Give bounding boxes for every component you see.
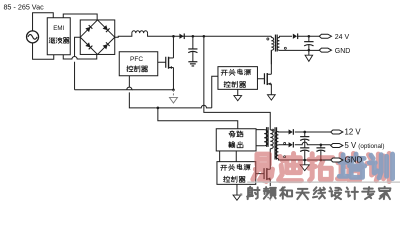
svg-text:GND: GND (335, 48, 351, 55)
svg-text:PFC: PFC (130, 56, 143, 63)
svg-text:5 V: 5 V (345, 141, 358, 150)
svg-text:EMI: EMI (53, 25, 64, 32)
svg-text:GND: GND (345, 156, 363, 165)
svg-text:12 V: 12 V (345, 128, 362, 137)
svg-text:(optional): (optional) (358, 143, 384, 150)
svg-text:85 - 265 Vac: 85 - 265 Vac (3, 2, 44, 11)
svg-text:24 V: 24 V (335, 34, 350, 41)
